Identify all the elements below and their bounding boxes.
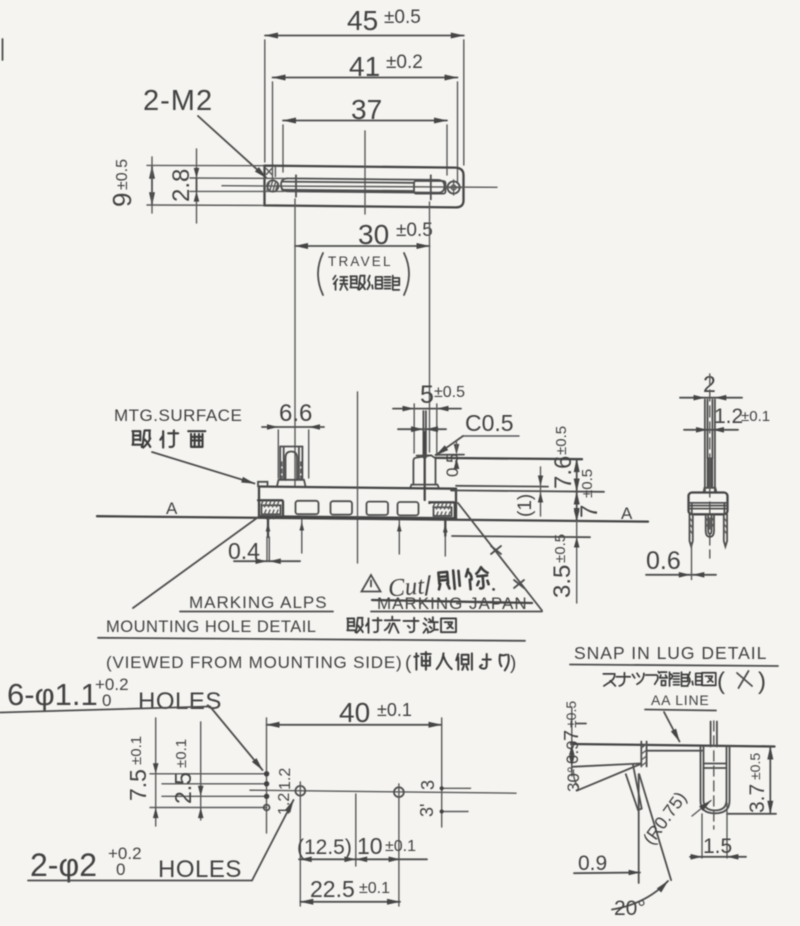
lever shaft end view: [704, 400, 717, 493]
dim 22.5±0.1: [300, 876, 400, 902]
svg-text:SNAP IN LUG DETAIL: SNAP IN LUG DETAIL: [574, 643, 767, 663]
page edge artifact: [2, 39, 4, 60]
svg-text:3': 3': [417, 804, 437, 817]
dim 40±0.1: [267, 697, 442, 833]
dim 1.2±0.1: [684, 405, 770, 433]
dim 0.9 bottom: [574, 852, 640, 875]
label 6-phi1.1 holes: [0, 675, 263, 770]
svg-text:(: (: [717, 668, 725, 695]
terminal block right: [430, 502, 455, 518]
title MOUNTING HOLE DETAIL: [98, 617, 525, 641]
svg-text:±0.2: ±0.2: [386, 52, 423, 73]
svg-text:1.2: 1.2: [276, 793, 293, 815]
label 取付面: [132, 430, 205, 447]
svg-text:7: 7: [561, 730, 583, 741]
svg-text:HOLES: HOLES: [158, 856, 242, 883]
svg-text:±0.1: ±0.1: [377, 700, 412, 720]
svg-text:+0.2: +0.2: [95, 675, 129, 694]
svg-text:(1): (1): [515, 494, 536, 517]
dim 7.5±0.1: [125, 718, 159, 826]
svg-text:2-φ2: 2-φ2: [30, 847, 97, 883]
lever pedestal: [277, 480, 306, 487]
svg-text:±0.5: ±0.5: [114, 159, 131, 190]
travel note: [318, 253, 409, 295]
mounting hole detail group: [0, 675, 516, 906]
dim 30±0.5 travel: [295, 199, 433, 487]
svg-text:): ): [510, 653, 516, 674]
marking leader left: [133, 517, 259, 609]
view centerline: [357, 392, 359, 563]
svg-text:1.5: 1.5: [703, 835, 732, 858]
end view group: [646, 371, 770, 580]
svg-text:7.6: 7.6: [550, 456, 577, 489]
screw right: [446, 180, 462, 195]
svg-text:±0.5: ±0.5: [396, 220, 433, 241]
top view group: [107, 5, 497, 487]
dim 2.8: [168, 149, 199, 223]
svg-text:0.9: 0.9: [563, 740, 582, 764]
pin left end view: [690, 514, 693, 546]
dim 5±0.5 lug: [393, 381, 465, 455]
pin 4 leader: [443, 518, 448, 556]
svg-text:7: 7: [576, 505, 603, 518]
svg-text:7.5: 7.5: [125, 769, 151, 801]
hole phi2 right: [394, 784, 404, 906]
svg-text:±0.1: ±0.1: [173, 739, 190, 768]
dim 1.5: [690, 803, 746, 860]
svg-text:±0.1: ±0.1: [128, 736, 145, 765]
horizontal centerline: [250, 790, 516, 793]
lever shaft in slot: [282, 182, 414, 183]
label R0.75: [639, 788, 711, 848]
svg-text:(: (: [405, 653, 412, 674]
label MARKING JAPAN struck: [371, 594, 542, 613]
extension line mid: [355, 794, 357, 866]
dim 9±0.5 left: [107, 157, 264, 213]
dim 3.7±0.5: [727, 747, 776, 814]
svg-text:): ): [758, 668, 766, 695]
svg-text:30°: 30°: [564, 766, 583, 792]
dim 7±0.5: [576, 469, 603, 521]
svg-text:C0.5: C0.5: [465, 410, 514, 436]
slider slot: [281, 178, 445, 192]
terminal block left: [258, 500, 283, 519]
subtitle katakana: [603, 668, 766, 695]
label MARKING ALPS: [180, 593, 333, 612]
left dim lines 0.9 / 30deg: [561, 701, 640, 792]
svg-text:±0.5: ±0.5: [434, 384, 465, 401]
section line A-A: [97, 499, 648, 523]
svg-text:A: A: [166, 499, 178, 518]
screw M2 left: [266, 167, 278, 192]
svg-text:MTG.SURFACE: MTG.SURFACE: [114, 406, 242, 425]
svg-text:±0.5: ±0.5: [579, 469, 596, 498]
hole row extension lines: [150, 774, 267, 808]
pin right end view: [724, 514, 727, 546]
lug metal tab: [423, 411, 426, 500]
end view centerline: [709, 374, 711, 558]
svg-text:TRAVEL: TRAVEL: [328, 254, 393, 269]
svg-text:MARKING ALPS: MARKING ALPS: [189, 593, 328, 612]
svg-text:6-φ1.1: 6-φ1.1: [7, 677, 98, 712]
label 2-phi2 holes: [28, 800, 294, 883]
svg-text:0.6: 0.6: [646, 547, 681, 575]
title SNAP IN LUG DETAIL: [570, 643, 778, 666]
dim 41±0.2: [273, 51, 458, 183]
svg-text:±0.5: ±0.5: [563, 701, 579, 728]
20 deg wedge: [612, 774, 671, 920]
dim 6.6 lever: [262, 400, 324, 478]
vertical centerline: [364, 131, 366, 214]
slot extension lines to 2.8 dim: [190, 177, 284, 179]
svg-text:10: 10: [357, 833, 383, 859]
svg-text:±0.1: ±0.1: [359, 880, 390, 897]
dim 3 and 3' ticks: [417, 780, 471, 817]
svg-text:0: 0: [116, 860, 125, 879]
svg-text:3.5: 3.5: [549, 565, 576, 598]
label C0.5 with leader: [436, 410, 519, 455]
svg-text:0.5: 0.5: [443, 453, 462, 477]
travel start tick: [295, 175, 297, 196]
svg-text:2-M2: 2-M2: [143, 85, 213, 117]
svg-text:±0.1: ±0.1: [385, 838, 416, 855]
pin 3 leader: [397, 518, 402, 554]
svg-text:0.9: 0.9: [578, 852, 607, 875]
pin 1 with 0.4 detail: [266, 517, 271, 561]
dim lug tab width: [398, 426, 446, 432]
handwritten Cut/削除: [387, 565, 496, 604]
snap in lug detail group: [561, 643, 778, 920]
svg-text:±0.5: ±0.5: [384, 7, 421, 28]
label AA LINE: [645, 692, 716, 742]
svg-text:0: 0: [102, 691, 111, 710]
svg-text:A: A: [621, 504, 633, 523]
svg-text:AA LINE: AA LINE: [651, 692, 710, 708]
svg-text:40: 40: [339, 697, 370, 728]
lug cross-section bar: [641, 742, 646, 767]
svg-text:5: 5: [420, 381, 434, 409]
svg-text:±0.5: ±0.5: [747, 753, 763, 780]
body end view: [689, 493, 728, 515]
dim 0.4: [228, 538, 300, 564]
right side extension lines: [451, 486, 604, 537]
svg-text:1.2: 1.2: [277, 768, 294, 790]
dim 37: [283, 94, 447, 175]
svg-text:22.5: 22.5: [310, 876, 355, 902]
bent lug tip: [626, 765, 642, 810]
slider knob: [414, 181, 446, 194]
dim 7.6±0.5: [550, 426, 577, 492]
pin 2 leader: [300, 517, 305, 553]
knob center tick: [430, 175, 432, 199]
svg-text:(VIEWED FROM MOUNTING SIDE): (VIEWED FROM MOUNTING SIDE): [106, 653, 402, 672]
svg-text:±0.5: ±0.5: [553, 426, 570, 455]
dim 45±0.5: [265, 5, 464, 165]
svg-text:(12.5): (12.5): [297, 836, 352, 859]
side view (section) group: [97, 381, 648, 674]
dim (1): [515, 467, 543, 517]
lever: [280, 447, 302, 481]
svg-text:HOLES: HOLES: [138, 688, 222, 715]
svg-text:MOUNTING HOLE DETAIL: MOUNTING HOLE DETAIL: [106, 618, 316, 636]
dim 2.5±0.1: [170, 722, 204, 820]
leader to mounting surface: [152, 452, 255, 484]
snap lug end view: [706, 515, 714, 537]
lug shoulder line: [647, 750, 702, 752]
svg-text:2.8: 2.8: [168, 169, 195, 202]
dim (12.5) and 10±0.1: [297, 833, 427, 862]
bottom windows: [296, 501, 419, 516]
svg-text:9: 9: [107, 193, 137, 207]
svg-text:6.6: 6.6: [279, 400, 312, 427]
hole phi2 left: [295, 782, 305, 906]
horizontal centerline: [222, 186, 497, 188]
subtitle VIEWED FROM MOUNTING SIDE: [106, 652, 516, 674]
body band: [258, 482, 456, 519]
svg-text:20°: 20°: [614, 897, 646, 920]
svg-text:2.5: 2.5: [170, 772, 196, 804]
svg-text:1.2: 1.2: [714, 405, 743, 428]
dim 0.6: [646, 543, 716, 580]
marking leader right with cut marks: [458, 503, 542, 611]
dim 2: [680, 371, 742, 401]
svg-text:45: 45: [347, 5, 378, 36]
small holes phi1.1: [264, 771, 270, 810]
lug boss: [410, 455, 439, 488]
dim 3.5±0.5: [549, 511, 580, 604]
label 2-M2 with leader: [143, 85, 267, 178]
svg-text:3: 3: [418, 780, 438, 790]
AA line: [571, 744, 775, 747]
svg-text:±0.1: ±0.1: [741, 408, 770, 425]
body outline: [265, 166, 464, 208]
dim 0.5 chamfer: [436, 442, 583, 477]
warning triangle: [362, 575, 381, 592]
svg-text:3.7: 3.7: [746, 784, 769, 813]
U channel front view: [701, 721, 730, 829]
svg-text:0.4: 0.4: [228, 538, 260, 564]
svg-text:±0.5: ±0.5: [552, 534, 569, 563]
